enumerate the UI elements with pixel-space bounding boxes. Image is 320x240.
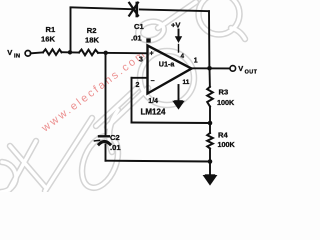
wire branch node A up [70,8,72,53]
wire bottom [106,160,211,163]
resistor R1 [43,49,62,55]
node R3 R4 [208,121,213,126]
svg-text:R4: R4 [218,131,228,140]
resistor R4 [207,133,213,149]
svg-text:4: 4 [181,53,185,60]
svg-text:R2: R2 [87,26,97,35]
resistor R3 [207,87,213,107]
node output [207,66,212,71]
capacitor C1 [129,3,138,16]
svg-text:.01: .01 [131,34,142,43]
svg-text:18K: 18K [85,36,99,45]
svg-text:16K: 16K [41,35,55,44]
svg-text:C1: C1 [134,22,144,31]
terminal Vout circle [230,66,236,72]
capacitor C2 [99,135,109,137]
wire C2 branch [105,53,107,136]
wire pin11 [178,85,180,101]
ink blob artifact [146,38,150,42]
wire right rail [208,11,210,68]
watermark gray outlines [1,0,245,193]
wire +V supply [178,30,180,37]
wire output stub [192,67,229,69]
svg-text:V: V [238,64,243,73]
ground pin11 arrow [172,101,184,110]
wire top [71,7,133,9]
+V arrow head [175,36,182,43]
resistor R2 [79,50,98,56]
svg-text:100K: 100K [218,140,236,149]
svg-text:+V: +V [171,21,181,30]
watermark white inner pass [1,0,245,193]
svg-text:R1: R1 [46,25,56,34]
svg-text:OUT: OUT [245,69,258,75]
svg-text:1: 1 [194,58,198,65]
op-amp U1a triangle [148,46,192,94]
svg-text:LM124: LM124 [141,107,166,116]
circuit ink [25,3,236,175]
svg-text:2: 2 [136,82,140,89]
svg-text:C2: C2 [110,133,120,142]
svg-text:.01: .01 [110,143,121,152]
svg-text:U1-a: U1-a [159,59,176,68]
wire pin2 branch [132,77,148,79]
svg-text:11: 11 [183,79,190,86]
svg-text:+: + [150,51,154,58]
node bottom [208,159,213,164]
svg-text:1/4: 1/4 [148,98,158,105]
svg-text:IN: IN [14,54,20,60]
svg-text:3: 3 [139,57,143,64]
svg-text:100K: 100K [217,98,235,107]
node B [104,51,108,55]
node A [68,50,72,54]
wire input rail [31,51,43,54]
svg-text:R3: R3 [219,88,229,97]
terminal Vin circle [25,51,31,57]
svg-text:−: − [151,78,155,85]
ground bottom [203,175,218,186]
